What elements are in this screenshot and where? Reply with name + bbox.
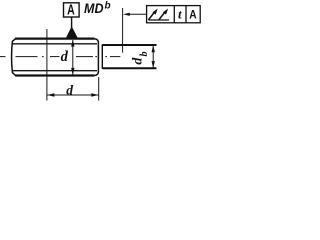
- arrowhead up: [152, 45, 155, 52]
- thread end line (vertical): [46, 29, 48, 77]
- svg-text:b: b: [139, 52, 150, 57]
- shoulder step face with fillets: [95, 39, 99, 76]
- svg-text:d: d: [61, 49, 69, 65]
- bottom dimension line d: [47, 94, 98, 96]
- centerline (shaft axis, dash-dot): [0, 56, 120, 58]
- inner diameter dimension line d: [72, 40, 74, 75]
- arrowhead up: [71, 40, 74, 47]
- total runout symbol: [148, 9, 169, 20]
- svg-text:d: d: [66, 82, 73, 97]
- datum triangle (filled): [66, 26, 78, 38]
- shaft outline: threaded large section: [12, 39, 99, 76]
- arrowhead left: [47, 93, 54, 96]
- datum feature box A: [64, 3, 80, 17]
- svg-text:b: b: [105, 0, 111, 11]
- svg-text:t: t: [178, 6, 182, 21]
- left end with chamfers: [12, 39, 16, 76]
- arrowhead down: [152, 61, 155, 68]
- datum stem: [71, 17, 73, 28]
- thread core line top: [12, 43, 97, 45]
- tolerance leader extension line: [122, 8, 124, 53]
- bottom extension line left: [46, 77, 48, 101]
- small journal shaft (right): [102, 44, 156, 68]
- bottom edge: [15, 74, 95, 76]
- arrowhead down: [71, 68, 74, 75]
- svg-text:A: A: [67, 2, 75, 18]
- bottom extension line right: [98, 77, 100, 101]
- svg-text:d: d: [131, 57, 146, 65]
- svg-text:MD: MD: [84, 1, 104, 16]
- feature control frame: [147, 6, 201, 23]
- leader line with arrowhead: [128, 13, 147, 15]
- top edge: [15, 37, 95, 39]
- thread core line bottom: [12, 70, 97, 72]
- svg-text:A: A: [189, 7, 197, 21]
- journal diameter dimension line d_b: [152, 46, 154, 68]
- arrowhead right: [91, 93, 98, 96]
